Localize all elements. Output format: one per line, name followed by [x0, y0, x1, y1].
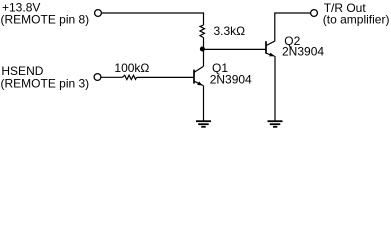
- svg-text:3.3kΩ: 3.3kΩ: [214, 24, 246, 38]
- resistor 100k: [122, 75, 136, 79]
- wire Q1 emitter down: [203, 85, 205, 120]
- wire resistor to Q1 collector: [203, 38, 205, 67]
- label T/R Out (to amplifier): [323, 1, 390, 27]
- svg-text:(to amplifier): (to amplifier): [323, 12, 390, 26]
- wire resistor to Q1 base: [137, 76, 194, 78]
- wire top from +13.8V terminal: [102, 12, 203, 14]
- label Q2: [282, 34, 324, 59]
- transistor Q1 2N3904: [194, 66, 203, 85]
- resistor 3.3k: [200, 25, 205, 38]
- label +13.8V (REMOTE pin 8): [1, 0, 90, 26]
- transistor Q2 2N3904: [266, 41, 275, 56]
- wire junction to Q2 base: [204, 48, 266, 50]
- svg-text:(REMOTE pin 8): (REMOTE pin 8): [1, 12, 90, 26]
- svg-text:2N3904: 2N3904: [210, 72, 252, 86]
- terminal +13.8V: [95, 10, 102, 17]
- wire HSEND to resistor: [101, 76, 122, 78]
- junction dot: [200, 46, 205, 51]
- wire down to resistor: [203, 12, 205, 25]
- wire Q2 emitter down: [274, 56, 276, 121]
- terminal T/R Out: [311, 10, 318, 17]
- wire Q2 collector up: [275, 13, 311, 41]
- svg-text:(REMOTE pin 3): (REMOTE pin 3): [1, 77, 90, 91]
- label Q1: [210, 61, 252, 86]
- terminal HSEND: [94, 74, 101, 81]
- ground Q1: [196, 121, 211, 127]
- label HSEND (REMOTE pin 3): [1, 64, 90, 90]
- svg-text:100kΩ: 100kΩ: [114, 61, 149, 75]
- ground Q2: [268, 121, 283, 127]
- svg-text:2N3904: 2N3904: [282, 44, 324, 58]
